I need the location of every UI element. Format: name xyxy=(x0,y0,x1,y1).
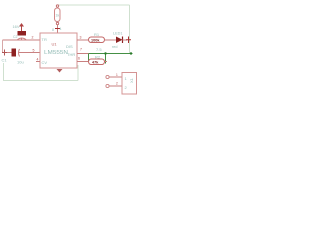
svg-text:LM555N: LM555N xyxy=(44,50,68,56)
wire net VCC top horizontal xyxy=(58,4,130,6)
wire net DIS horizontal green xyxy=(88,53,133,55)
ground triangle below U1 xyxy=(57,69,63,73)
svg-text:10u: 10u xyxy=(17,60,24,65)
svg-text:4: 4 xyxy=(60,27,62,31)
svg-text:C1: C1 xyxy=(2,58,8,63)
svg-text:8: 8 xyxy=(52,28,54,32)
capacitor C2 curved plate xyxy=(18,38,27,40)
wire DIS-THR tie vertical green xyxy=(88,54,90,62)
wire green stub down from R2 right xyxy=(105,54,107,64)
svg-text:5: 5 xyxy=(33,49,35,53)
svg-text:100k: 100k xyxy=(91,39,100,43)
svg-text:CV: CV xyxy=(42,60,48,65)
svg-text:X1: X1 xyxy=(129,77,134,83)
svg-text:red: red xyxy=(112,45,118,49)
resistor R4 vertical xyxy=(55,8,61,22)
svg-text:1: 1 xyxy=(116,73,118,77)
capacitor C2 positive plate xyxy=(18,31,27,36)
wire TR left vertical xyxy=(2,40,4,53)
wire R1 to LED1 xyxy=(105,39,117,41)
wire CV from C1 to U1 xyxy=(3,52,12,54)
svg-text:7.5: 7.5 xyxy=(96,47,102,52)
connector X1 pin 2 circle xyxy=(106,84,109,87)
svg-text:R2: R2 xyxy=(95,55,101,60)
svg-text:TR: TR xyxy=(42,37,47,42)
resistor R2 xyxy=(89,59,105,65)
svg-text:2: 2 xyxy=(32,36,34,40)
svg-text:3: 3 xyxy=(80,36,82,40)
connector X1 pin 1 stub xyxy=(110,76,123,78)
pin CV stub xyxy=(36,61,40,63)
svg-text:47k: 47k xyxy=(92,61,99,65)
svg-text:4: 4 xyxy=(37,58,39,62)
pin 7 stub xyxy=(77,53,89,55)
svg-text:2: 2 xyxy=(116,82,118,86)
pin 3 wire to R1 xyxy=(77,39,89,41)
capacitor C2 lead to TR wire xyxy=(21,38,23,40)
wire net VCC right vertical xyxy=(129,5,131,54)
supply cross at U1 top xyxy=(55,28,60,30)
wire R4 bottom to U1 vcc pin xyxy=(57,25,59,34)
LED LED1 xyxy=(116,37,123,44)
supply +5V arrow above C2 xyxy=(21,25,23,32)
svg-text:6: 6 xyxy=(78,57,80,61)
wire net GND left vertical xyxy=(3,63,5,81)
junction dot at R2 column xyxy=(104,52,106,54)
wire net GND right vertical xyxy=(77,65,79,81)
junction dot at VCC column xyxy=(130,52,132,54)
resistor R1 xyxy=(89,37,105,43)
svg-text:U1: U1 xyxy=(52,42,58,47)
wire LED1 to supply xyxy=(123,39,128,41)
wire R2 right xyxy=(105,61,108,63)
svg-text:DIS: DIS xyxy=(66,44,73,49)
svg-text:LED1: LED1 xyxy=(113,32,123,36)
connector X1 body xyxy=(122,73,137,95)
svg-text:C2: C2 xyxy=(13,35,18,39)
op-amp U1 box LM555N xyxy=(40,33,77,68)
capacitor C1 positive plate xyxy=(12,49,17,57)
wire TR horizontal xyxy=(3,39,41,41)
svg-text:THR: THR xyxy=(67,52,75,57)
connector X1 pin 1 circle xyxy=(106,75,109,78)
svg-text:7: 7 xyxy=(80,48,82,52)
svg-text:R1: R1 xyxy=(94,32,100,37)
svg-text:16V: 16V xyxy=(13,25,21,29)
pin 6 wire to R2 xyxy=(77,61,90,63)
supply cross right xyxy=(128,37,130,44)
capacitor C1 plus sign xyxy=(4,50,6,56)
connector X1 pin 2 stub xyxy=(110,85,123,87)
svg-text:1k: 1k xyxy=(56,14,60,18)
R4 top pin circle xyxy=(56,5,58,7)
wire net GND bottom horizontal xyxy=(4,80,79,82)
capacitor C1 curved plate xyxy=(19,49,20,57)
R4 bottom pin circle xyxy=(56,22,58,24)
